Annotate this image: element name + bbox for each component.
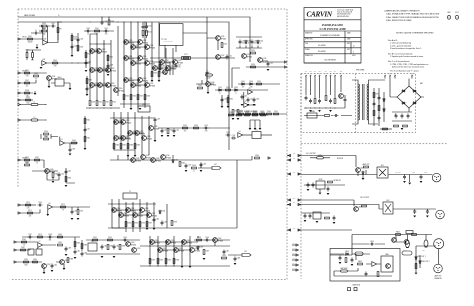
svg-text:R133: R133 bbox=[251, 50, 255, 52]
wire cin1 bbox=[31, 33, 43, 38]
resistor R109 bbox=[89, 101, 91, 106]
resistor R101 bbox=[28, 38, 33, 40]
svg-text:R107: R107 bbox=[95, 28, 99, 30]
oval relay RL3 bbox=[402, 251, 412, 255]
diode D710 bbox=[383, 98, 385, 102]
transistor Q124 bbox=[166, 66, 171, 71]
resistor Rf1 bbox=[57, 28, 59, 33]
wire c3 in bbox=[20, 204, 36, 206]
capacitor C711 bbox=[378, 96, 381, 101]
box block VR4 bbox=[28, 249, 34, 255]
wire d2 rows bbox=[86, 240, 140, 254]
diode D108 bbox=[159, 210, 161, 214]
resistor R144 bbox=[44, 138, 49, 140]
svg-text:C101: C101 bbox=[51, 23, 55, 25]
resistor R150 bbox=[198, 87, 203, 89]
op-amp U6 bbox=[48, 205, 53, 210]
resistor R146 bbox=[113, 144, 115, 149]
capacitor C126 bbox=[241, 95, 244, 100]
svg-text:CH 2 OUTPUT: CH 2 OUTPUT bbox=[360, 197, 369, 199]
transistor Q145 bbox=[45, 169, 50, 174]
node speakon jack CN1 bbox=[432, 173, 441, 182]
ground GND27 bbox=[234, 263, 237, 265]
transistor Q141 bbox=[131, 158, 136, 163]
wire in3 bbox=[20, 91, 35, 93]
wire ch1 in bbox=[20, 38, 43, 40]
svg-text:2 amb - ground relocated: 2 amb - ground relocated bbox=[390, 44, 411, 47]
transistor Q127 bbox=[216, 55, 221, 60]
svg-text:47u: 47u bbox=[184, 130, 186, 132]
capacitor C808 bbox=[304, 214, 307, 219]
svg-text:Q105: Q105 bbox=[111, 68, 115, 70]
wire u3 bbox=[60, 137, 78, 148]
wire res row right bbox=[238, 113, 287, 115]
wire filter bus bbox=[392, 112, 412, 121]
ground GND17b bbox=[146, 228, 149, 230]
transistor Q126 bbox=[216, 36, 221, 41]
resistor R181 bbox=[22, 241, 27, 243]
capacitor C125 bbox=[231, 137, 236, 140]
svg-text:R170: R170 bbox=[26, 202, 30, 204]
wire d1 top row bbox=[22, 236, 80, 238]
transistor Q132 bbox=[114, 120, 119, 125]
capacitor C112 bbox=[175, 64, 178, 69]
title block divider 7 bbox=[304, 54, 361, 63]
svg-text:D104: D104 bbox=[260, 40, 264, 42]
svg-text:R176: R176 bbox=[142, 222, 146, 224]
svg-text:R143: R143 bbox=[44, 131, 48, 133]
svg-text:R136: R136 bbox=[34, 73, 38, 75]
node input arrow 3 bbox=[18, 92, 20, 94]
svg-text:C802: C802 bbox=[424, 172, 427, 174]
resistor R127 bbox=[237, 110, 239, 115]
svg-text:LINE OUT 1: LINE OUT 1 bbox=[417, 256, 425, 258]
svg-text:Q153: Q153 bbox=[65, 260, 69, 262]
ground GND13b bbox=[127, 155, 130, 157]
transistor Q118 bbox=[124, 78, 129, 83]
svg-text:R103: R103 bbox=[42, 28, 46, 30]
capacitor C811 bbox=[339, 256, 342, 261]
transistor Q130 bbox=[258, 58, 263, 63]
resistor R173 bbox=[77, 210, 79, 215]
wire main board dashed border bottom bbox=[12, 279, 287, 281]
resistor R705 bbox=[394, 125, 399, 127]
node bottom arrow 2 bbox=[14, 261, 16, 263]
resistor R131 bbox=[253, 114, 258, 116]
transistor Q131 bbox=[47, 76, 52, 81]
capacitor C120 bbox=[221, 98, 224, 103]
svg-text:R192: R192 bbox=[108, 237, 112, 239]
svg-text:Carvin Corp. 12340 World: Carvin Corp. 12340 World bbox=[337, 10, 353, 12]
svg-text:22K: 22K bbox=[29, 215, 31, 217]
svg-text:Q116: Q116 bbox=[143, 56, 147, 58]
resistor R187 bbox=[21, 249, 26, 251]
wire ch2 out feed bbox=[301, 200, 383, 209]
svg-text:C146: C146 bbox=[205, 237, 209, 239]
capacitor C132 bbox=[65, 170, 68, 175]
svg-text:PWR XFMR: PWR XFMR bbox=[356, 70, 365, 72]
transistor Q160 bbox=[182, 240, 187, 245]
svg-text:Q121: Q121 bbox=[150, 83, 154, 85]
svg-text:OUT: OUT bbox=[293, 171, 296, 173]
svg-text:THERM: THERM bbox=[309, 111, 315, 113]
ground GND15 bbox=[241, 104, 244, 106]
svg-text:RED: RED bbox=[329, 71, 332, 73]
svg-text:R184: R184 bbox=[33, 259, 37, 261]
box block balance bbox=[138, 106, 150, 112]
svg-text:R119: R119 bbox=[154, 72, 158, 74]
capacitor C131 bbox=[58, 173, 61, 178]
capacitor C809 bbox=[309, 214, 312, 219]
wire V+ rail top bbox=[18, 17, 250, 62]
node speakon jack CN4 bbox=[434, 264, 443, 273]
capacitor C138 bbox=[48, 236, 53, 239]
resistor R807 bbox=[415, 264, 417, 269]
resistor R102 bbox=[42, 25, 47, 27]
resistor R123 bbox=[221, 43, 223, 48]
capacitor C702 bbox=[309, 99, 312, 104]
svg-text:Q109: Q109 bbox=[119, 88, 123, 90]
svg-text:Q144: Q144 bbox=[166, 155, 170, 157]
capacitor C712 bbox=[378, 116, 381, 121]
svg-text:R809: R809 bbox=[358, 261, 362, 263]
svg-text:MONITOR: MONITOR bbox=[333, 180, 341, 182]
resistor R195 bbox=[165, 259, 167, 264]
transistor Q153 bbox=[60, 260, 65, 265]
node link arrow bbox=[268, 157, 270, 159]
node ch3 dots bbox=[111, 203, 114, 206]
node board edge arrow 6 bbox=[288, 229, 290, 231]
svg-text:Q145: Q145 bbox=[50, 169, 54, 171]
svg-text:BLK: BLK bbox=[305, 71, 307, 73]
wire mon down bbox=[319, 189, 321, 192]
wire out bank rails bbox=[124, 22, 173, 108]
svg-text:C117: C117 bbox=[87, 128, 91, 130]
resistor R184 bbox=[33, 261, 38, 263]
capacitor C708 filter bbox=[407, 114, 410, 119]
svg-text:U4: U4 bbox=[239, 131, 241, 133]
thermal switch TS1 bbox=[307, 113, 317, 118]
svg-text:1K: 1K bbox=[62, 209, 64, 211]
ground gnd psu1 bbox=[309, 110, 312, 112]
capacitor C111 bbox=[226, 55, 229, 60]
resistor R139 bbox=[26, 99, 31, 101]
svg-text:220p: 220p bbox=[27, 102, 30, 104]
svg-text:C108: C108 bbox=[110, 64, 114, 66]
bridge diode D701 bbox=[401, 90, 405, 92]
capacitor C115 bbox=[267, 62, 270, 67]
op-amp U7 bbox=[38, 243, 43, 248]
node input arrow 6 bbox=[18, 119, 20, 121]
resistor R176 bbox=[139, 222, 141, 227]
node CH3 aux arrow bbox=[18, 204, 20, 206]
svg-text:C112: C112 bbox=[178, 64, 182, 66]
svg-text:C123: C123 bbox=[204, 125, 208, 127]
svg-text:C121: C121 bbox=[164, 129, 168, 131]
capacitor C134 bbox=[71, 210, 74, 215]
svg-text:470: 470 bbox=[242, 86, 244, 88]
resistor R169 bbox=[65, 177, 67, 182]
resistor R108 bbox=[108, 20, 110, 25]
svg-text:C765: C765 bbox=[164, 39, 167, 41]
svg-text:C133: C133 bbox=[38, 202, 42, 204]
svg-text:U2: U2 bbox=[245, 101, 247, 103]
transistor Q113 bbox=[145, 45, 150, 50]
node secondary pin S2 bbox=[389, 75, 391, 78]
svg-text:C141: C141 bbox=[77, 250, 81, 252]
ground GND25 bbox=[101, 256, 104, 258]
box fan driver bbox=[381, 256, 393, 272]
resistor R118 bbox=[144, 95, 146, 100]
capacitor C128 bbox=[253, 98, 256, 103]
wire main board dashed border top bbox=[18, 8, 287, 10]
resistor R193 bbox=[149, 259, 151, 264]
title block divider 6 bbox=[304, 48, 361, 54]
wire ch2 row links bbox=[114, 122, 144, 150]
wire d15 in bbox=[16, 249, 30, 250]
transistor Q129 bbox=[242, 54, 247, 59]
box block monitor2 bbox=[313, 212, 321, 219]
svg-text:C137: C137 bbox=[28, 234, 32, 236]
transistor Q110 bbox=[124, 40, 129, 45]
wire U1A feedback bbox=[39, 22, 62, 43]
svg-text:C122: C122 bbox=[176, 129, 180, 131]
capacitor C141 bbox=[74, 250, 77, 255]
node edge arrow A bbox=[285, 61, 287, 63]
node switch edge arrow 4 bbox=[296, 259, 298, 261]
svg-text:R162: R162 bbox=[182, 162, 186, 164]
resistor R117 bbox=[137, 95, 139, 100]
svg-text:OUT: OUT bbox=[244, 251, 247, 253]
resistor R106 bbox=[77, 46, 79, 51]
resistor R194 bbox=[157, 259, 159, 264]
op-amp hybrid IC1 bbox=[160, 24, 183, 46]
svg-text:OUT: OUT bbox=[293, 153, 296, 155]
svg-text:D109: D109 bbox=[200, 246, 204, 248]
wire IC1 bottom stubs bbox=[165, 45, 176, 58]
diode D106 bbox=[249, 83, 253, 85]
svg-text:T3: T3 bbox=[129, 191, 131, 193]
svg-text:C814: C814 bbox=[370, 241, 374, 243]
svg-text:R164: R164 bbox=[255, 155, 259, 157]
resistor R186 bbox=[81, 244, 83, 249]
svg-text:C102: C102 bbox=[74, 45, 78, 47]
ground GND9 bbox=[267, 69, 270, 71]
ground gnd psu2 bbox=[401, 128, 404, 130]
IC1 internal label bbox=[161, 38, 164, 41]
svg-text:C110: C110 bbox=[148, 25, 152, 27]
resistor R703 bbox=[334, 99, 336, 104]
diode D803 bbox=[345, 253, 349, 255]
transistor Q123 bbox=[160, 60, 165, 65]
ground GND7 bbox=[232, 118, 235, 120]
resistor R138 bbox=[25, 92, 30, 94]
transistor Q154 bbox=[126, 242, 131, 247]
svg-text:RED: RED bbox=[340, 71, 343, 73]
svg-text:R153: R153 bbox=[183, 125, 187, 127]
svg-text:C107: C107 bbox=[88, 61, 92, 63]
capacitor C703 bbox=[318, 99, 321, 104]
svg-text:R137: R137 bbox=[25, 80, 29, 82]
capacitor C106 bbox=[101, 20, 104, 25]
svg-text:R173: R173 bbox=[80, 210, 84, 212]
svg-text:J802: J802 bbox=[422, 250, 425, 252]
resistor R128 bbox=[229, 114, 234, 116]
ground GND20 bbox=[71, 218, 74, 220]
transistor Q102 bbox=[97, 49, 102, 54]
resistor R168 bbox=[52, 173, 54, 178]
svg-text:OUT: OUT bbox=[293, 197, 296, 199]
resistor R197 bbox=[203, 250, 205, 255]
oval part bbox=[355, 252, 363, 255]
transformer T1 secondary bbox=[368, 84, 370, 120]
ground GNDc bbox=[69, 88, 72, 90]
wire power supply dashed divider bbox=[355, 74, 357, 133]
svg-text:C140: C140 bbox=[54, 264, 58, 266]
wire fan parts bbox=[356, 254, 381, 264]
svg-text:R151: R151 bbox=[230, 98, 234, 100]
resistor R170 bbox=[26, 204, 31, 206]
resistor R110 bbox=[96, 101, 98, 106]
svg-text:C138: C138 bbox=[48, 234, 52, 236]
ground gnd o2 bbox=[408, 183, 411, 185]
wire aux string a bbox=[86, 76, 88, 94]
svg-text:R102: R102 bbox=[42, 23, 46, 25]
transistor Q152 bbox=[42, 264, 47, 269]
wire fan bottom bbox=[334, 271, 392, 276]
svg-text:C118: C118 bbox=[72, 148, 76, 150]
wire ch2 out bus bbox=[110, 159, 230, 161]
svg-text:BLK: BLK bbox=[334, 71, 336, 73]
resistor R712 bbox=[378, 106, 380, 111]
wire c2a bbox=[32, 170, 58, 172]
svg-text:U7: U7 bbox=[39, 241, 41, 243]
ground gnd m4 bbox=[333, 222, 336, 224]
ground GND21 bbox=[65, 254, 68, 256]
svg-text:R147: R147 bbox=[123, 144, 127, 146]
resistor R134 bbox=[251, 66, 256, 68]
svg-text:R116: R116 bbox=[133, 95, 137, 97]
wire ch2 out run bbox=[393, 208, 436, 210]
svg-text:R805: R805 bbox=[396, 231, 400, 233]
resistor R711 bbox=[373, 111, 375, 116]
svg-text:MON: MON bbox=[319, 179, 323, 181]
wire feed stubs bbox=[118, 155, 173, 160]
transistor Q805 bbox=[392, 238, 397, 243]
svg-text:3 CH POWER AMP: 3 CH POWER AMP bbox=[318, 27, 346, 31]
capacitor C707 filter bbox=[401, 114, 404, 119]
box shield cluster bbox=[55, 79, 64, 86]
svg-text:K1: K1 bbox=[256, 130, 258, 132]
node transformer pin P5 bbox=[325, 75, 327, 78]
wire bias bus bbox=[18, 22, 229, 150]
svg-text:CARVIN: CARVIN bbox=[307, 11, 333, 19]
svg-text:C1: C1 bbox=[35, 30, 37, 32]
resistor R153 bbox=[183, 127, 188, 129]
wire psu strings right bbox=[374, 88, 384, 126]
capacitor C803 bbox=[307, 183, 310, 188]
wire q410 bbox=[214, 242, 216, 246]
resistor R804 bbox=[325, 217, 330, 219]
svg-text:R156: R156 bbox=[239, 111, 243, 113]
transistor Q106 bbox=[90, 83, 95, 88]
resistor R810 thermistor bbox=[341, 270, 348, 272]
ground GND17 bbox=[52, 181, 55, 183]
svg-text:R185: R185 bbox=[77, 242, 81, 244]
wire ch2 rails bbox=[110, 112, 155, 155]
ground GND4 bbox=[85, 70, 88, 72]
svg-text:R115: R115 bbox=[126, 95, 130, 97]
resistor R152 bbox=[167, 129, 169, 134]
node transformer pin P4 bbox=[319, 75, 321, 78]
transistor Q159 bbox=[174, 248, 179, 253]
ground GND r1 bbox=[362, 178, 365, 180]
resistor R140 bbox=[86, 79, 88, 84]
node board edge arrow 1 bbox=[288, 154, 290, 156]
svg-text:CH 1 OUTPUT: CH 1 OUTPUT bbox=[306, 153, 316, 155]
capacitor C810 bbox=[333, 216, 336, 221]
capacitor C710 bbox=[373, 102, 376, 107]
resistor R160 bbox=[267, 113, 272, 115]
capacitor C806 bbox=[413, 209, 416, 214]
svg-text:Q162: Q162 bbox=[218, 238, 222, 240]
svg-text:R150: R150 bbox=[198, 85, 202, 87]
ground GND1 bbox=[36, 47, 39, 49]
resistor R119 bbox=[151, 72, 153, 77]
wire mid row y90 bbox=[215, 89, 268, 91]
svg-text:BLK: BLK bbox=[325, 71, 327, 73]
svg-text:R186: R186 bbox=[84, 244, 88, 246]
transistor Q803 bbox=[404, 240, 409, 245]
transformer T1 winding bbox=[357, 84, 359, 120]
svg-text:R190: R190 bbox=[122, 245, 126, 247]
diode D103 bbox=[245, 40, 247, 44]
resistor R189 bbox=[107, 245, 109, 250]
capacitor C706 filter bbox=[395, 114, 398, 119]
resistor R177 bbox=[146, 222, 148, 227]
resistor R811 bbox=[377, 272, 379, 277]
svg-text:Q140: Q140 bbox=[211, 82, 215, 84]
capacitor C704 bbox=[329, 99, 332, 104]
ground gnd s1 bbox=[415, 273, 418, 275]
svg-text:Q130: Q130 bbox=[263, 58, 267, 60]
capacitor C113 bbox=[239, 40, 242, 45]
svg-text:3) ALL RESISTORS IN OHMS: 3) ALL RESISTORS IN OHMS bbox=[386, 19, 412, 22]
resistor R58 value box bbox=[184, 57, 189, 59]
node dot a bbox=[57, 62, 60, 65]
wire r799 bbox=[310, 157, 330, 159]
wire psu left bus bbox=[304, 107, 345, 109]
resistor R103 bbox=[42, 30, 47, 32]
ground GNDb bbox=[84, 148, 87, 150]
ground GND19 bbox=[46, 214, 49, 216]
wire bridge leads bbox=[390, 79, 424, 113]
wire bank row links bbox=[124, 42, 175, 85]
svg-text:R125: R125 bbox=[226, 87, 230, 89]
capacitor C108 bbox=[107, 64, 110, 69]
resistor R704 bbox=[325, 115, 330, 117]
wire chassis dashed border bbox=[300, 74, 302, 280]
svg-text:D107: D107 bbox=[175, 159, 179, 161]
node switch edge arrow 5 bbox=[296, 264, 298, 266]
svg-text:R172: R172 bbox=[61, 204, 65, 206]
transistor Q144 bbox=[161, 155, 166, 160]
capacitor C147 bbox=[223, 250, 226, 255]
ground GND3 bbox=[71, 55, 74, 57]
resistor R803 bbox=[362, 205, 367, 207]
svg-text:Q151: Q151 bbox=[152, 213, 156, 215]
diode D105 bbox=[241, 83, 245, 85]
